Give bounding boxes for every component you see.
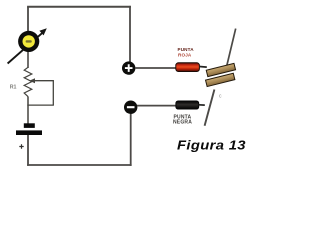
red probe tip (199, 66, 206, 69)
wire: bottom-right vertical (minus node to bottom rail) (130, 113, 132, 166)
node − (negative terminal) (124, 101, 137, 114)
capacitor C: bottom plate (206, 73, 235, 86)
wire: wiper loop right edge (52, 80, 54, 105)
node + (positive terminal) (122, 61, 135, 74)
battery B1 (16, 123, 42, 148)
wire: battery to bottom rail (27, 135, 29, 166)
wire: top-right vertical (top rail to plus node) (129, 6, 131, 63)
meter M1 (galvanometer with arrow) (8, 28, 47, 63)
wire: bottom rail (27, 164, 132, 166)
wire: plus node to red probe (135, 67, 177, 69)
wire: meter bottom to resistor top (27, 51, 29, 68)
svg-text:c: c (219, 94, 222, 100)
capacitor C: bottom lead (205, 90, 215, 126)
svg-text:PUNTA: PUNTA (178, 47, 195, 52)
svg-text:ROJA: ROJA (178, 53, 192, 58)
black probe tip (199, 104, 205, 106)
wiper arrow (potentiometer tap) (29, 78, 53, 83)
capacitor C: top plate (206, 63, 235, 76)
probe red (PUNTA ROJA body) (176, 63, 200, 72)
wire: minus node to black probe (137, 105, 177, 107)
svg-text:NEGRA: NEGRA (173, 119, 192, 125)
resistor R1 (zigzag) (24, 67, 32, 96)
wire: top rail (27, 6, 131, 8)
wire: resistor bottom to battery (27, 97, 29, 125)
svg-text:R1: R1 (10, 84, 17, 90)
svg-text:Figura 13: Figura 13 (177, 137, 246, 152)
capacitor C: top lead (226, 29, 236, 69)
wire: wiper loop bottom edge (27, 104, 54, 106)
wire: top-left vertical (meter to top rail) (27, 7, 29, 32)
probe black (PUNTA NEGRA body) (176, 101, 199, 109)
